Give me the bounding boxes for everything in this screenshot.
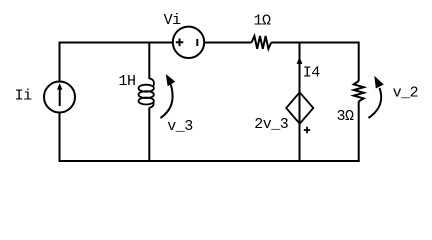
wire: inductor branch lower	[148, 108, 150, 162]
svg-text:I4: I4	[303, 64, 321, 81]
svg-text:1H: 1H	[119, 73, 136, 90]
plus polarity mark of dependent source	[304, 127, 310, 133]
svg-text:v_2: v_2	[393, 85, 419, 102]
voltage arrow v_2 (curved)	[369, 88, 382, 118]
svg-text:v_3: v_3	[167, 118, 193, 135]
voltage arrow v_3 (curved)	[161, 85, 173, 119]
voltage source Vi circle	[173, 27, 204, 58]
current source Ii circle	[44, 82, 75, 113]
svg-text:1Ω: 1Ω	[254, 13, 272, 30]
dependent source U1 diamond (2v_3)	[286, 92, 313, 123]
voltage source minus terminal (vertical bar)	[196, 39, 198, 46]
wire: dependent source branch	[299, 42, 301, 162]
resistor 3ohm (vertical zigzag)	[354, 81, 364, 101]
inductor L1 1H coil	[139, 79, 154, 108]
current source Ii arrow	[59, 89, 61, 106]
wire: left rail	[59, 42, 61, 162]
wire: right rail lower segment	[358, 101, 360, 161]
wire: bottom rail	[59, 160, 360, 162]
wire: top rail left segment (node between Ii and R1)	[60, 42, 252, 44]
resistor 1ohm (horizontal zigzag)	[252, 36, 272, 49]
wire: inductor branch upper	[148, 42, 150, 80]
svg-text:2v_3: 2v_3	[254, 116, 289, 133]
svg-text:Ii: Ii	[15, 88, 33, 105]
wire: right rail upper segment	[358, 42, 360, 82]
current arrow I4 (filled head on wire)	[297, 57, 303, 64]
svg-text:Vi: Vi	[164, 12, 182, 29]
wire: top rail right segment	[271, 42, 359, 44]
voltage source plus terminal	[176, 39, 184, 47]
svg-text:3Ω: 3Ω	[337, 108, 355, 125]
